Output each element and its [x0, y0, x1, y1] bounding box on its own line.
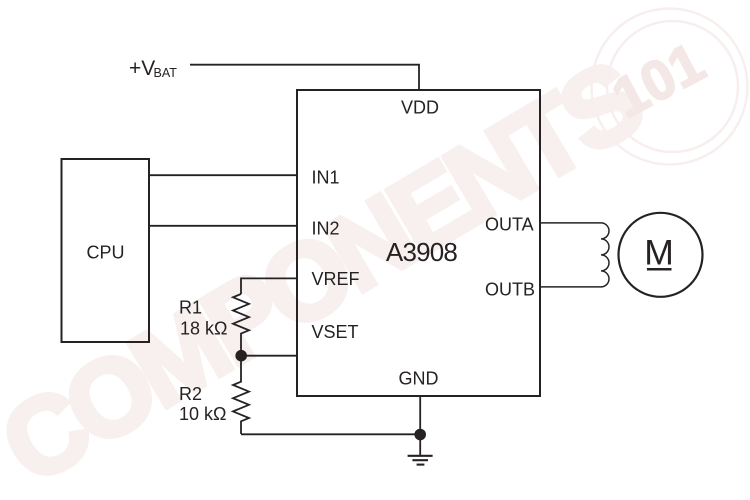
svg-text:IN2: IN2: [312, 219, 340, 239]
motor M1: [619, 213, 703, 297]
svg-text:BAT: BAT: [154, 66, 178, 80]
svg-text:R2: R2: [179, 384, 202, 404]
wire CPU to IN1: [149, 174, 297, 176]
node VSET junction: [235, 350, 247, 362]
net +VBAT label: [129, 57, 177, 80]
svg-text:M: M: [644, 233, 674, 273]
svg-text:10 kΩ: 10 kΩ: [179, 404, 226, 424]
wire GND pin down: [419, 396, 421, 434]
resistor R2: [233, 356, 249, 434]
svg-text:VREF: VREF: [312, 269, 360, 289]
svg-text:IN1: IN1: [312, 167, 340, 187]
IC U1 A3908: [297, 90, 540, 396]
node ground junction: [414, 429, 426, 441]
svg-text:VDD: VDD: [401, 98, 439, 118]
svg-text:+V: +V: [129, 57, 155, 80]
svg-text:A3908: A3908: [386, 237, 458, 267]
svg-text:OUTA: OUTA: [485, 214, 534, 234]
ground: [408, 435, 433, 465]
wire VSET: [241, 355, 297, 357]
svg-text:R1: R1: [179, 298, 202, 318]
svg-text:GND: GND: [399, 369, 439, 389]
wire OUTA to coil: [540, 222, 601, 224]
wire R2 to ground node: [241, 433, 420, 435]
svg-text:OUTB: OUTB: [485, 279, 535, 299]
svg-text:VSET: VSET: [312, 322, 359, 342]
wire VREF to R1: [241, 278, 297, 294]
inductor motor winding L1: [601, 223, 609, 287]
svg-text:18 kΩ: 18 kΩ: [180, 318, 227, 338]
svg-text:CPU: CPU: [86, 243, 124, 263]
wire VBAT to VDD: [190, 65, 419, 90]
wire CPU to IN2: [149, 225, 297, 227]
CPU block: [62, 159, 150, 342]
resistor R1: [233, 294, 249, 356]
wire OUTB to coil: [540, 286, 601, 288]
